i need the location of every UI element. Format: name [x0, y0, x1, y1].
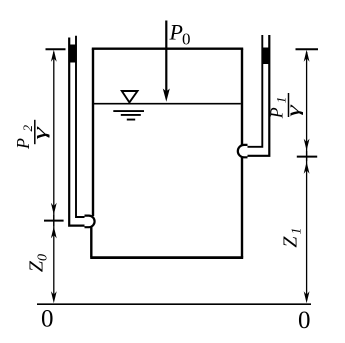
tank left wall	[92, 49, 94, 216]
left piezometer tube outer wall	[69, 38, 86, 226]
svg-text:0: 0	[182, 30, 191, 49]
tank bottom	[90, 256, 243, 259]
svg-text:γ: γ	[283, 104, 303, 117]
svg-text:P: P	[169, 20, 183, 45]
datum line 0-0	[37, 303, 311, 305]
right piezometer tube inner wall	[246, 35, 262, 147]
right piezometer tube outer wall	[246, 35, 269, 156]
right tube liquid column fill	[262, 48, 270, 65]
free surface hatch lines	[113, 111, 144, 120]
left mid tick	[44, 220, 64, 222]
label P2/gamma	[13, 120, 50, 150]
water surface line	[94, 103, 241, 105]
label Z1	[279, 227, 304, 247]
label Z0	[26, 254, 51, 272]
free surface symbol triangle	[122, 91, 138, 102]
right mid tick	[297, 156, 317, 158]
dimension line P2/gamma	[53, 52, 55, 226]
svg-text:0: 0	[298, 307, 311, 334]
left tube connection cap	[85, 216, 95, 228]
dimension line Z0	[53, 215, 55, 300]
left piezometer tube inner wall	[76, 36, 87, 217]
right top tick	[296, 48, 319, 50]
tank right wall	[241, 49, 243, 258]
svg-text:Z1: Z1	[279, 227, 304, 247]
dimension line Z1	[306, 151, 308, 300]
left tube liquid column fill	[69, 45, 77, 63]
tank top	[92, 48, 243, 50]
label P1/gamma	[267, 93, 304, 119]
svg-text:Z0: Z0	[26, 254, 51, 272]
right tube connection cap	[238, 145, 248, 157]
dimension line P1/gamma	[306, 52, 308, 161]
svg-text:0: 0	[41, 306, 54, 333]
left top tick	[46, 48, 66, 50]
P0 arrow	[165, 21, 167, 93]
svg-text:γ: γ	[29, 126, 49, 140]
